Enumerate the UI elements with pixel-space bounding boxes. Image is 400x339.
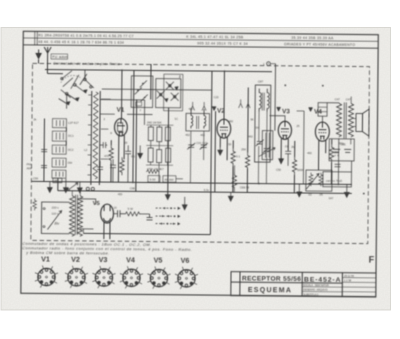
wire R8 bbox=[232, 166, 234, 192]
tube V5 rectifier bbox=[101, 204, 114, 223]
wire bus x133 bbox=[133, 70, 134, 182]
wire heater rail y234 bbox=[83, 233, 210, 234]
resistor R15 cathode bbox=[329, 144, 334, 162]
wire V1 grid bbox=[100, 113, 115, 115]
wire R15 bbox=[330, 162, 332, 184]
wire V4 anode bbox=[321, 116, 323, 122]
output transformer core bbox=[343, 102, 345, 138]
resistor box RB4 bbox=[148, 148, 153, 162]
switch glyph Yc bbox=[239, 99, 243, 108]
trimmer T1a bbox=[187, 143, 195, 150]
wire y169 link bbox=[176, 178, 183, 180]
wire R22 bbox=[233, 190, 235, 192]
resistor R9 bbox=[245, 152, 250, 170]
wire IFT2 legs bbox=[258, 112, 260, 142]
wire osc drop bbox=[167, 108, 170, 195]
switch glyph Yd bbox=[246, 99, 250, 108]
ground arrow gp1 bbox=[182, 197, 187, 210]
resistor box RB3 bbox=[165, 127, 170, 141]
wire bus x211 bbox=[210, 71, 212, 234]
IFT2 trimmer a bbox=[256, 140, 264, 147]
wire V5 pins bbox=[103, 222, 105, 239]
wire R3 bbox=[110, 163, 112, 182]
wire V2 anode bbox=[223, 71, 225, 119]
parts-list strip rule mid bbox=[23, 38, 378, 41]
resistor R6 horizontal bbox=[146, 170, 159, 174]
resistor R22 bbox=[232, 172, 237, 190]
wire RB mid link bbox=[146, 144, 173, 146]
tube socket V6 bbox=[175, 267, 198, 289]
dial lamp row 1 bbox=[156, 207, 181, 210]
ground arrow gl3 bbox=[77, 182, 82, 193]
arrow marker V3 bbox=[277, 107, 281, 111]
resistor box RB6 bbox=[166, 148, 171, 162]
switch glyph Ya bbox=[191, 102, 195, 111]
power transformer secondary bbox=[77, 196, 82, 236]
P.U. label box bbox=[51, 54, 68, 59]
tube socket V3 bbox=[92, 266, 115, 288]
tone resistor b bbox=[319, 173, 323, 187]
IFT1 secondary coil bbox=[204, 109, 206, 129]
capacitor C1 bbox=[41, 143, 47, 151]
scatter labels bbox=[84, 94, 345, 200]
output transformer secondary bbox=[348, 103, 353, 137]
wire RB bottom link bbox=[146, 164, 173, 166]
resistor R20 5W bbox=[125, 212, 141, 216]
label AP AM box bbox=[163, 176, 176, 183]
pilot lamp a bbox=[86, 187, 89, 190]
tube socket V2 bbox=[65, 266, 88, 288]
trimmer T1b bbox=[200, 143, 208, 150]
mains loop bbox=[41, 202, 69, 234]
speaker bbox=[356, 109, 369, 136]
IFT1 box bbox=[186, 113, 210, 131]
wire speaker links bbox=[354, 117, 356, 119]
tube socket V4 bbox=[120, 266, 143, 288]
wire x303 drop bbox=[302, 111, 305, 184]
wire V1 grid top bbox=[127, 113, 152, 115]
IFT1 primary coil bbox=[191, 109, 193, 129]
pilot lamp b bbox=[91, 187, 94, 190]
wire x303 top bbox=[297, 110, 304, 112]
wire V1 pins bbox=[117, 135, 119, 182]
title block sub rows under BE cell bbox=[302, 286, 342, 288]
output transformer primary bbox=[336, 103, 341, 137]
wire segment y90 left bbox=[102, 89, 212, 90]
arrow marker V2 bbox=[212, 107, 216, 111]
trimmer crosses bbox=[135, 80, 179, 101]
filter caps box bbox=[329, 139, 354, 161]
wire V2 pins bbox=[219, 137, 221, 147]
junction dots bbox=[120, 69, 366, 194]
wire AVC rail y183 bbox=[31, 181, 351, 184]
wire x144 drop bbox=[143, 100, 145, 125]
wire HT lead bottom bbox=[80, 228, 93, 230]
strip left column ticks bbox=[34, 31, 36, 45]
resistor box RB1 bbox=[148, 127, 153, 141]
wire RB drops bbox=[158, 165, 160, 182]
wave switch S1a spokes bbox=[59, 70, 94, 109]
wire box link bbox=[350, 161, 352, 172]
fuse box bbox=[53, 178, 62, 183]
wire osc upper bbox=[150, 64, 152, 99]
wire V3 anode bbox=[269, 116, 285, 122]
arrow marker V4 bbox=[309, 108, 313, 112]
chassis dashed boundary bbox=[31, 63, 370, 243]
tube socket V1 bbox=[35, 265, 58, 287]
resistor R12 bbox=[292, 157, 297, 175]
wire choke out bbox=[141, 213, 150, 215]
title block divider be/table bbox=[341, 273, 343, 297]
resistor R3 cathode bbox=[109, 145, 114, 163]
tuning gang box B bbox=[156, 79, 181, 108]
ground arrow gl1 bbox=[47, 182, 52, 193]
ground arrow gm1 bbox=[165, 195, 170, 200]
wire heater drops bbox=[71, 191, 73, 196]
ground arrow gv3 bbox=[279, 159, 284, 164]
ground arrow gm2 bbox=[138, 145, 143, 158]
IFT1 core bbox=[196, 116, 198, 129]
IFT2 trimmer b bbox=[263, 147, 271, 154]
earth arrow input bbox=[36, 49, 41, 58]
tone resistor a bbox=[309, 173, 313, 187]
tuning gang box A bbox=[131, 76, 153, 108]
label 3-30 box bbox=[148, 176, 160, 183]
title block divider receptor/be bbox=[301, 272, 303, 296]
tone block box bbox=[306, 170, 332, 191]
tone arrow bbox=[306, 174, 319, 190]
capacitor C20 electrolytic bbox=[333, 149, 340, 152]
IFT2 secondary coil bbox=[267, 89, 269, 112]
title block outer box bbox=[231, 272, 376, 297]
border frame bbox=[21, 31, 378, 296]
wire bank drops bbox=[57, 179, 59, 191]
wire bus x136 bbox=[135, 99, 138, 191]
wire HT lead top bbox=[80, 199, 96, 205]
power transformer primary bbox=[69, 196, 74, 236]
wire antenna drop bbox=[47, 73, 62, 75]
capacitor C2 bbox=[41, 165, 47, 167]
ground arrow gp2 bbox=[228, 192, 233, 201]
tube V1 bbox=[114, 118, 127, 136]
volume pot box bbox=[262, 131, 273, 160]
wire bus x215 bbox=[214, 111, 217, 192]
plug pins bbox=[43, 207, 45, 209]
speaker field coil box bbox=[323, 172, 352, 187]
tube V4 bbox=[315, 122, 329, 141]
wire terminal link bbox=[270, 63, 275, 65]
switch glyph Yb bbox=[202, 102, 206, 111]
capacitor C15 bbox=[335, 164, 341, 166]
wire IFT1 legs bbox=[189, 131, 191, 183]
resistor left stub bbox=[33, 198, 37, 210]
voltage selector arrow bbox=[47, 211, 61, 230]
aerial coil L1 block bbox=[87, 91, 110, 185]
capacitor C12 bbox=[285, 151, 291, 166]
mains switch arrow bbox=[70, 183, 78, 189]
grid box V4 bbox=[318, 103, 327, 117]
capacitor C6 bbox=[97, 161, 103, 182]
wire ground rail y192 bbox=[58, 191, 352, 194]
ground arrow gt2 bbox=[344, 184, 349, 197]
capacitor C19 bbox=[147, 214, 153, 220]
capacitor C21 electrolytic bbox=[344, 149, 351, 152]
terminal circle bbox=[267, 62, 271, 66]
capacitor C7 bbox=[110, 159, 116, 182]
wire V3 pins bbox=[280, 139, 282, 159]
label C99 box bbox=[136, 102, 142, 106]
IFT2 can dashed bbox=[255, 85, 271, 162]
earth lead bbox=[38, 59, 40, 63]
tube V2 bbox=[217, 119, 231, 138]
title block right table rows bbox=[342, 277, 376, 279]
resistor box RB2 bbox=[157, 127, 162, 142]
wire grid link y100 bbox=[100, 99, 144, 101]
IFT2 core bbox=[261, 93, 263, 111]
antenna bbox=[44, 47, 51, 74]
IFT2 primary coil bbox=[259, 89, 261, 112]
capacitor C5 bbox=[125, 145, 131, 182]
power transformer core bbox=[74, 195, 76, 235]
wire sec to speaker bbox=[350, 96, 352, 103]
wire V4 pins bbox=[318, 140, 320, 170]
wire left bus bbox=[43, 119, 46, 182]
switch bank contact rows bbox=[52, 119, 67, 179]
wire R12 bbox=[293, 175, 295, 193]
tuning gang box C bbox=[164, 74, 183, 111]
resistor box RB5 bbox=[157, 150, 162, 163]
wire plate to OPT bbox=[327, 102, 339, 105]
wire top B+ rail bbox=[45, 70, 272, 72]
capacitor C18 bbox=[118, 210, 125, 217]
wire V1 anode bbox=[120, 70, 122, 118]
volume pot arrow bbox=[259, 148, 276, 157]
title block left narrow cell bbox=[239, 272, 241, 296]
dial lamp row 3 bbox=[155, 222, 180, 225]
ground arrow gt1 bbox=[297, 184, 302, 197]
parts-list strip rule bottom bbox=[23, 45, 378, 48]
wire OPT bottom bbox=[337, 138, 339, 184]
resistor R8 bbox=[231, 148, 236, 166]
title block mid horizontal bbox=[231, 282, 342, 283]
resistor R5 bbox=[120, 157, 125, 175]
tube V3 bbox=[278, 121, 291, 139]
tube socket V5 bbox=[147, 266, 170, 288]
ground arrow gv2 bbox=[218, 147, 223, 155]
wire RB top link bbox=[146, 124, 173, 126]
capacitor C4 bbox=[100, 142, 107, 148]
wire x274 drop bbox=[274, 64, 277, 131]
wire R9 bbox=[246, 168, 248, 192]
ground arrow gl2 bbox=[63, 179, 68, 193]
dial lamp row 2 bbox=[156, 215, 181, 218]
wire V5 cathode out bbox=[113, 213, 117, 215]
